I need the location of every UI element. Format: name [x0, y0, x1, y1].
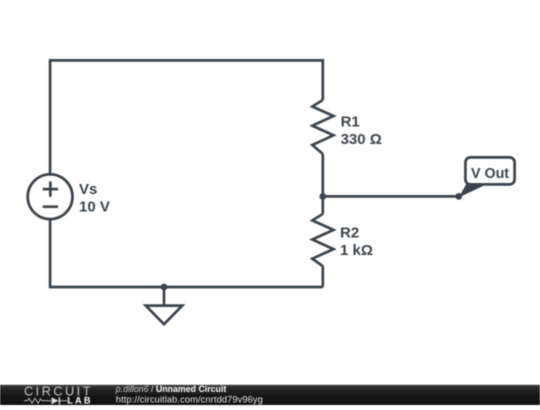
svg-text:V Out: V Out	[471, 166, 509, 182]
svg-text:1 kΩ: 1 kΩ	[340, 242, 373, 259]
flag V Out box	[465, 157, 514, 184]
logo zigzag wire	[24, 398, 51, 403]
wire top-left loop	[50, 60, 323, 174]
svg-text:10 V: 10 V	[79, 198, 110, 215]
node junction dot	[319, 193, 326, 200]
svg-text:Vs: Vs	[79, 181, 97, 198]
svg-text:R1: R1	[341, 114, 360, 131]
voltage source Vs	[28, 174, 73, 219]
svg-text:330 Ω: 330 Ω	[341, 131, 382, 148]
wire node to R2	[321, 196, 324, 214]
flag tail	[459, 184, 488, 198]
wire bottom	[50, 219, 323, 287]
ground stub	[163, 287, 166, 306]
resistor R2	[312, 214, 333, 266]
ground	[146, 306, 183, 325]
wire node to V Out	[323, 195, 459, 198]
logo diode	[52, 397, 59, 404]
svg-text:p.dillon6 / Unnamed Circuit: p.dillon6 / Unnamed Circuit	[115, 384, 227, 394]
node V Out dot	[455, 193, 462, 200]
wire R1 to node	[321, 154, 324, 197]
resistor R1	[312, 100, 333, 154]
svg-text:LAB: LAB	[67, 396, 92, 406]
ground junction dot	[161, 284, 168, 291]
wire R2 to bottom	[321, 266, 324, 287]
svg-text:http://circuitlab.com/cnrtdd79: http://circuitlab.com/cnrtdd79v96yg	[116, 395, 263, 405]
svg-text:R2: R2	[340, 225, 359, 242]
